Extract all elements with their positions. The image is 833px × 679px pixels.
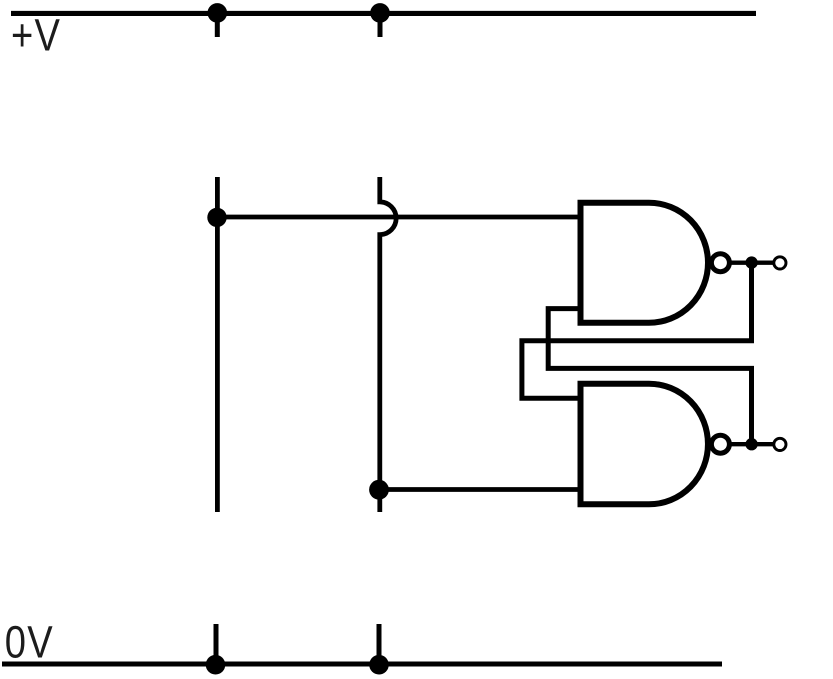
svg-text:+V: +V (11, 10, 61, 61)
svg-text:0V: 0V (5, 616, 54, 667)
